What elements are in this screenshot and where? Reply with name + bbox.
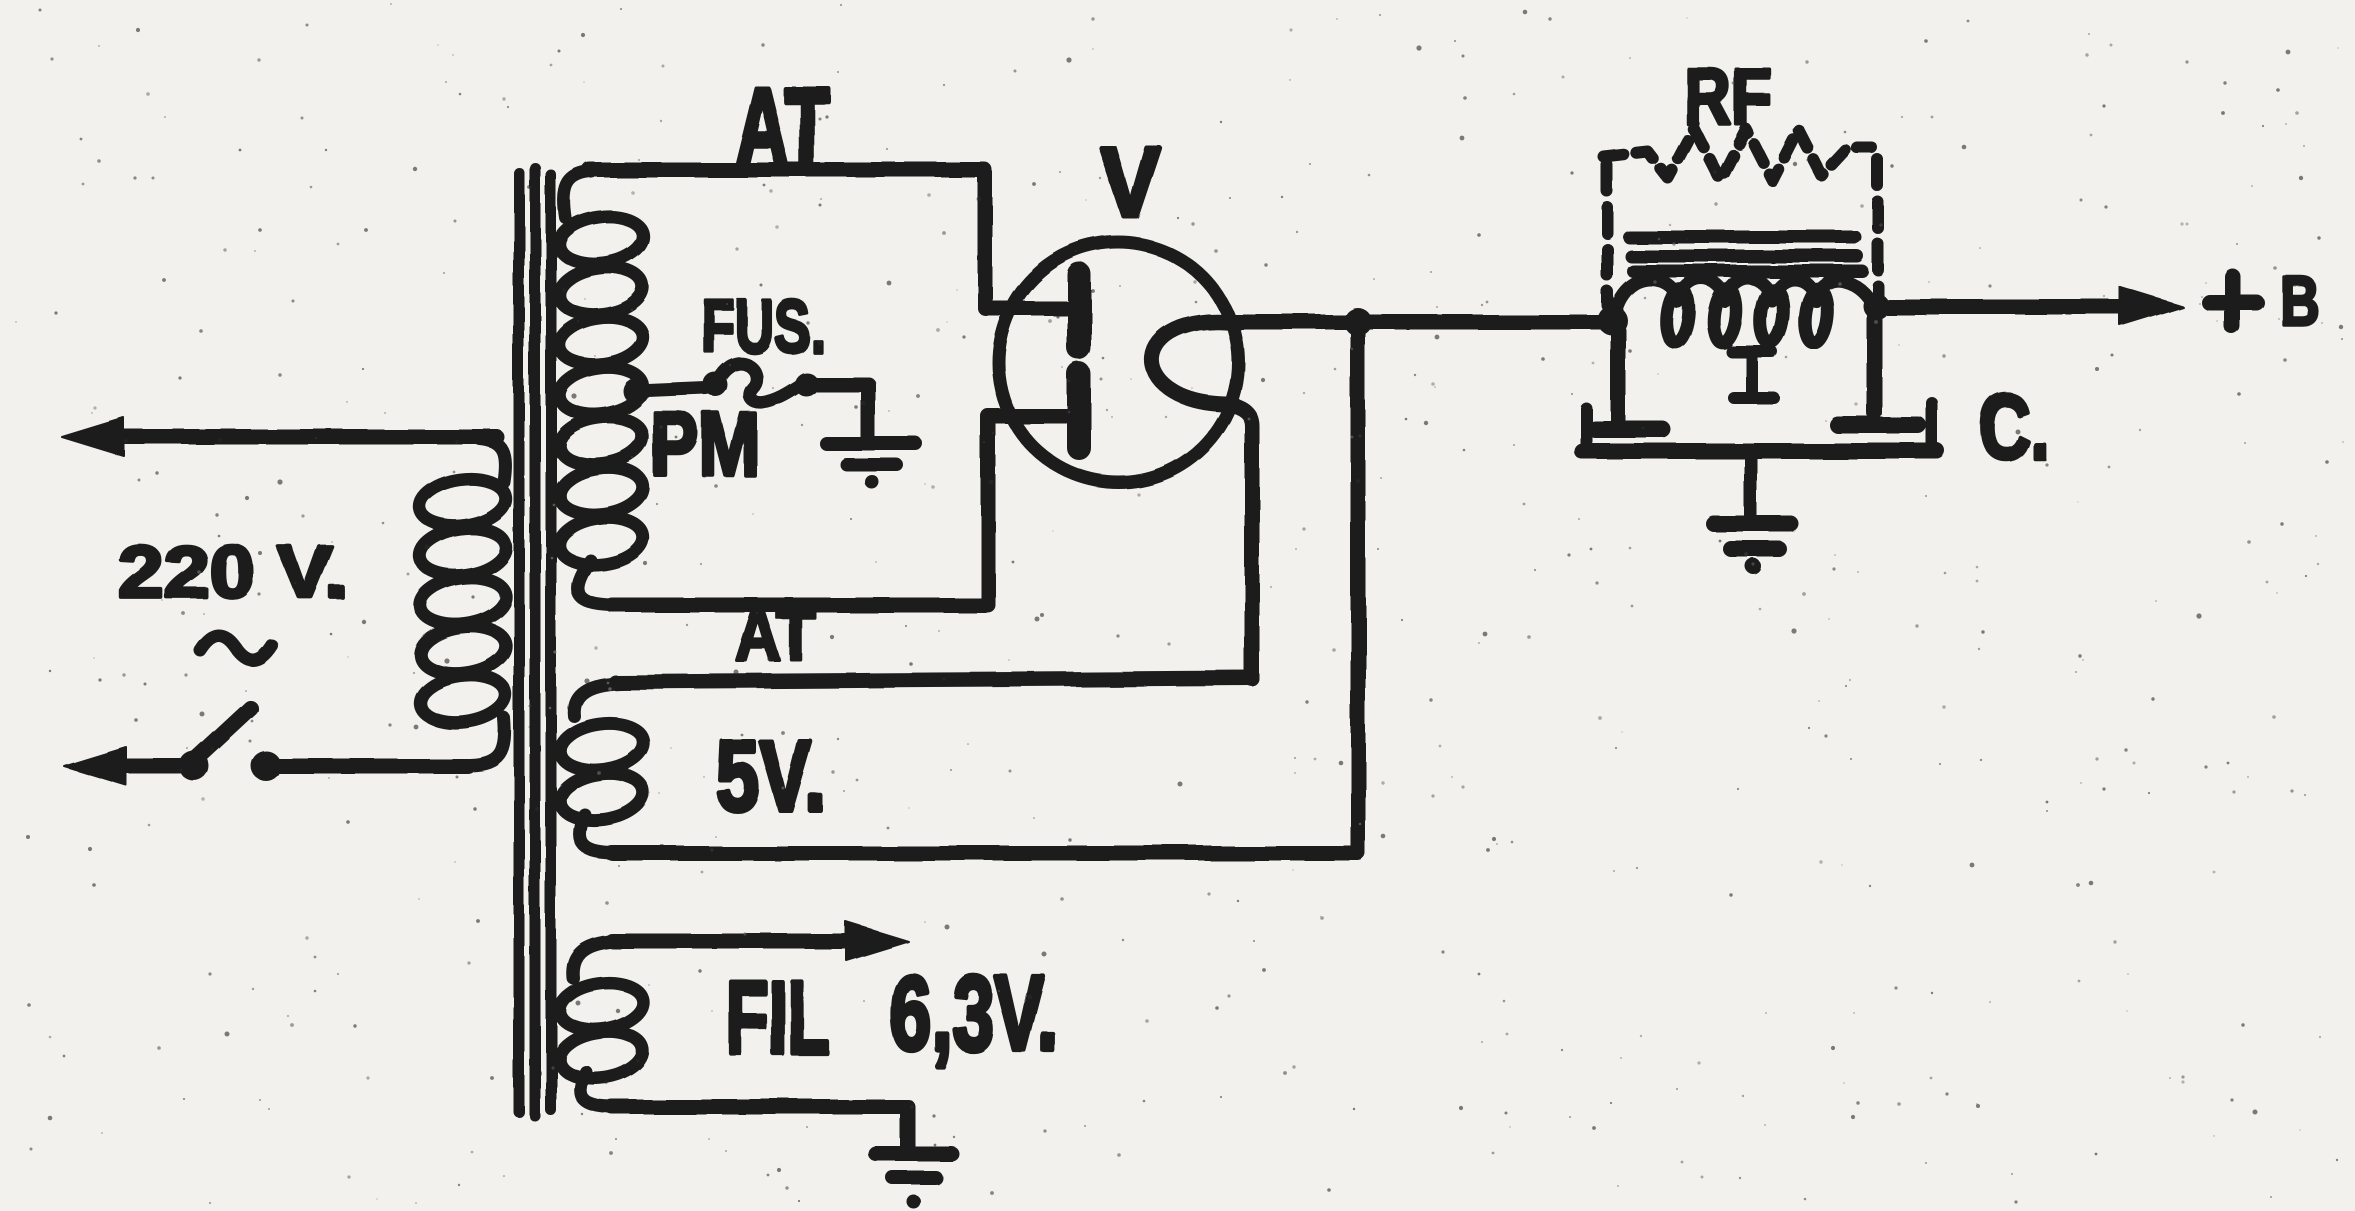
- label +B: [2209, 276, 2256, 326]
- wire: AT bottom to tube plate: [612, 416, 1066, 605]
- svg-text:FIL: FIL: [726, 960, 829, 1075]
- label 5V.: [716, 720, 826, 831]
- wire: 5V top: [615, 678, 1252, 682]
- wire: AT top to tube plate: [590, 170, 1066, 308]
- label V: [1100, 127, 1160, 238]
- label FIL 6,3V.: [726, 960, 829, 1075]
- ground (filter): [1714, 524, 1791, 574]
- tube plate bottom: [1067, 374, 1091, 448]
- svg-text:220 V.: 220 V.: [118, 532, 348, 613]
- capacitor C right: [1838, 312, 1918, 425]
- transformer 5V winding: [557, 683, 647, 853]
- wire: fuse to ground: [806, 384, 868, 438]
- tube plate top: [1067, 274, 1091, 348]
- resistor RF (dashed): [1604, 129, 1872, 180]
- choke I winding: [1613, 278, 1874, 344]
- wire: 5V bottom: [612, 846, 1358, 861]
- wire: FIL bottom to ground: [612, 1107, 908, 1148]
- node: choke output: [1863, 293, 1889, 319]
- wire: FIL top with arrow: [612, 922, 908, 960]
- node: center tap PM: [623, 378, 649, 404]
- wire: junction down to 5V winding: [1351, 322, 1366, 852]
- transformer AT secondary winding: [556, 172, 646, 605]
- label C.: [1979, 376, 2049, 478]
- wire: filament bottom down: [1228, 404, 1252, 679]
- dashed link right: [1872, 160, 1884, 298]
- label AT top: [735, 66, 829, 189]
- transformer core: [519, 168, 551, 1116]
- svg-text:FUS.: FUS.: [702, 285, 825, 368]
- svg-text:B: B: [2280, 263, 2320, 341]
- svg-text:6,3V.: 6,3V.: [890, 953, 1058, 1073]
- svg-text:V: V: [1100, 127, 1160, 238]
- fuse FUS: [703, 363, 818, 402]
- transformer FIL winding: [556, 941, 646, 1107]
- wire: tap to fuse: [636, 388, 706, 391]
- label 220V: [118, 532, 348, 613]
- svg-text:5V.: 5V.: [716, 720, 826, 831]
- ground (fuse): [827, 444, 916, 489]
- AC sine symbol: [200, 635, 272, 660]
- label AT bottom: [735, 596, 816, 676]
- wire: primary top lead: [62, 418, 497, 456]
- wire: filament to output junction: [1232, 315, 1612, 330]
- tube filament: [1152, 322, 1238, 404]
- node: choke input: [1597, 305, 1627, 335]
- switch S1: [179, 700, 281, 781]
- label I: [1732, 352, 1774, 398]
- choke core: [1629, 237, 1862, 271]
- rectifier tube V envelope: [998, 242, 1238, 482]
- transformer T1 primary winding: [417, 439, 509, 765]
- svg-text:RF: RF: [1684, 53, 1772, 141]
- capacitor common plate: [1582, 403, 1937, 451]
- ground (FIL): [876, 1154, 952, 1209]
- dashed link left: [1601, 165, 1613, 305]
- wire: primary bottom lead with arrow: [64, 747, 180, 785]
- label FUS.: [702, 285, 825, 368]
- node: output junction: [1344, 308, 1372, 336]
- wire: +B output: [1876, 287, 2182, 325]
- svg-text:PM: PM: [650, 395, 759, 495]
- svg-text:C.: C.: [1979, 376, 2049, 478]
- wire: switch to primary: [266, 759, 468, 774]
- capacitor C left: [1595, 330, 1662, 429]
- label PM: [650, 395, 759, 495]
- wire: plate to ground: [1745, 459, 1758, 516]
- label RF: [1684, 53, 1772, 141]
